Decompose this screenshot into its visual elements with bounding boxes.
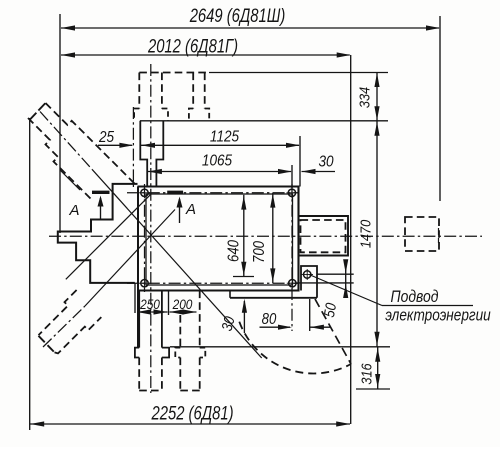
svg-text:200: 200 <box>172 296 193 312</box>
svg-text:А: А <box>68 202 79 219</box>
svg-text:250: 250 <box>139 296 160 312</box>
svg-text:1470: 1470 <box>356 220 373 249</box>
svg-text:700: 700 <box>251 241 268 263</box>
svg-text:50: 50 <box>320 301 339 318</box>
svg-text:2252 (6Д81): 2252 (6Д81) <box>151 403 234 424</box>
svg-text:30: 30 <box>218 314 238 332</box>
svg-text:334: 334 <box>355 87 372 108</box>
svg-text:2649 (6Д81Ш): 2649 (6Д81Ш) <box>189 5 286 26</box>
svg-text:Подвод: Подвод <box>391 288 439 307</box>
svg-text:80: 80 <box>262 311 277 328</box>
svg-text:1125: 1125 <box>210 129 240 146</box>
svg-text:А: А <box>185 201 196 218</box>
svg-text:30: 30 <box>318 154 334 171</box>
svg-text:2012 (6Д81Г): 2012 (6Д81Г) <box>147 36 238 57</box>
svg-text:25: 25 <box>98 129 115 146</box>
svg-text:1065: 1065 <box>202 153 233 170</box>
svg-text:электроэнергии: электроэнергии <box>385 306 491 324</box>
svg-text:316: 316 <box>357 363 374 384</box>
svg-text:640: 640 <box>226 240 243 262</box>
